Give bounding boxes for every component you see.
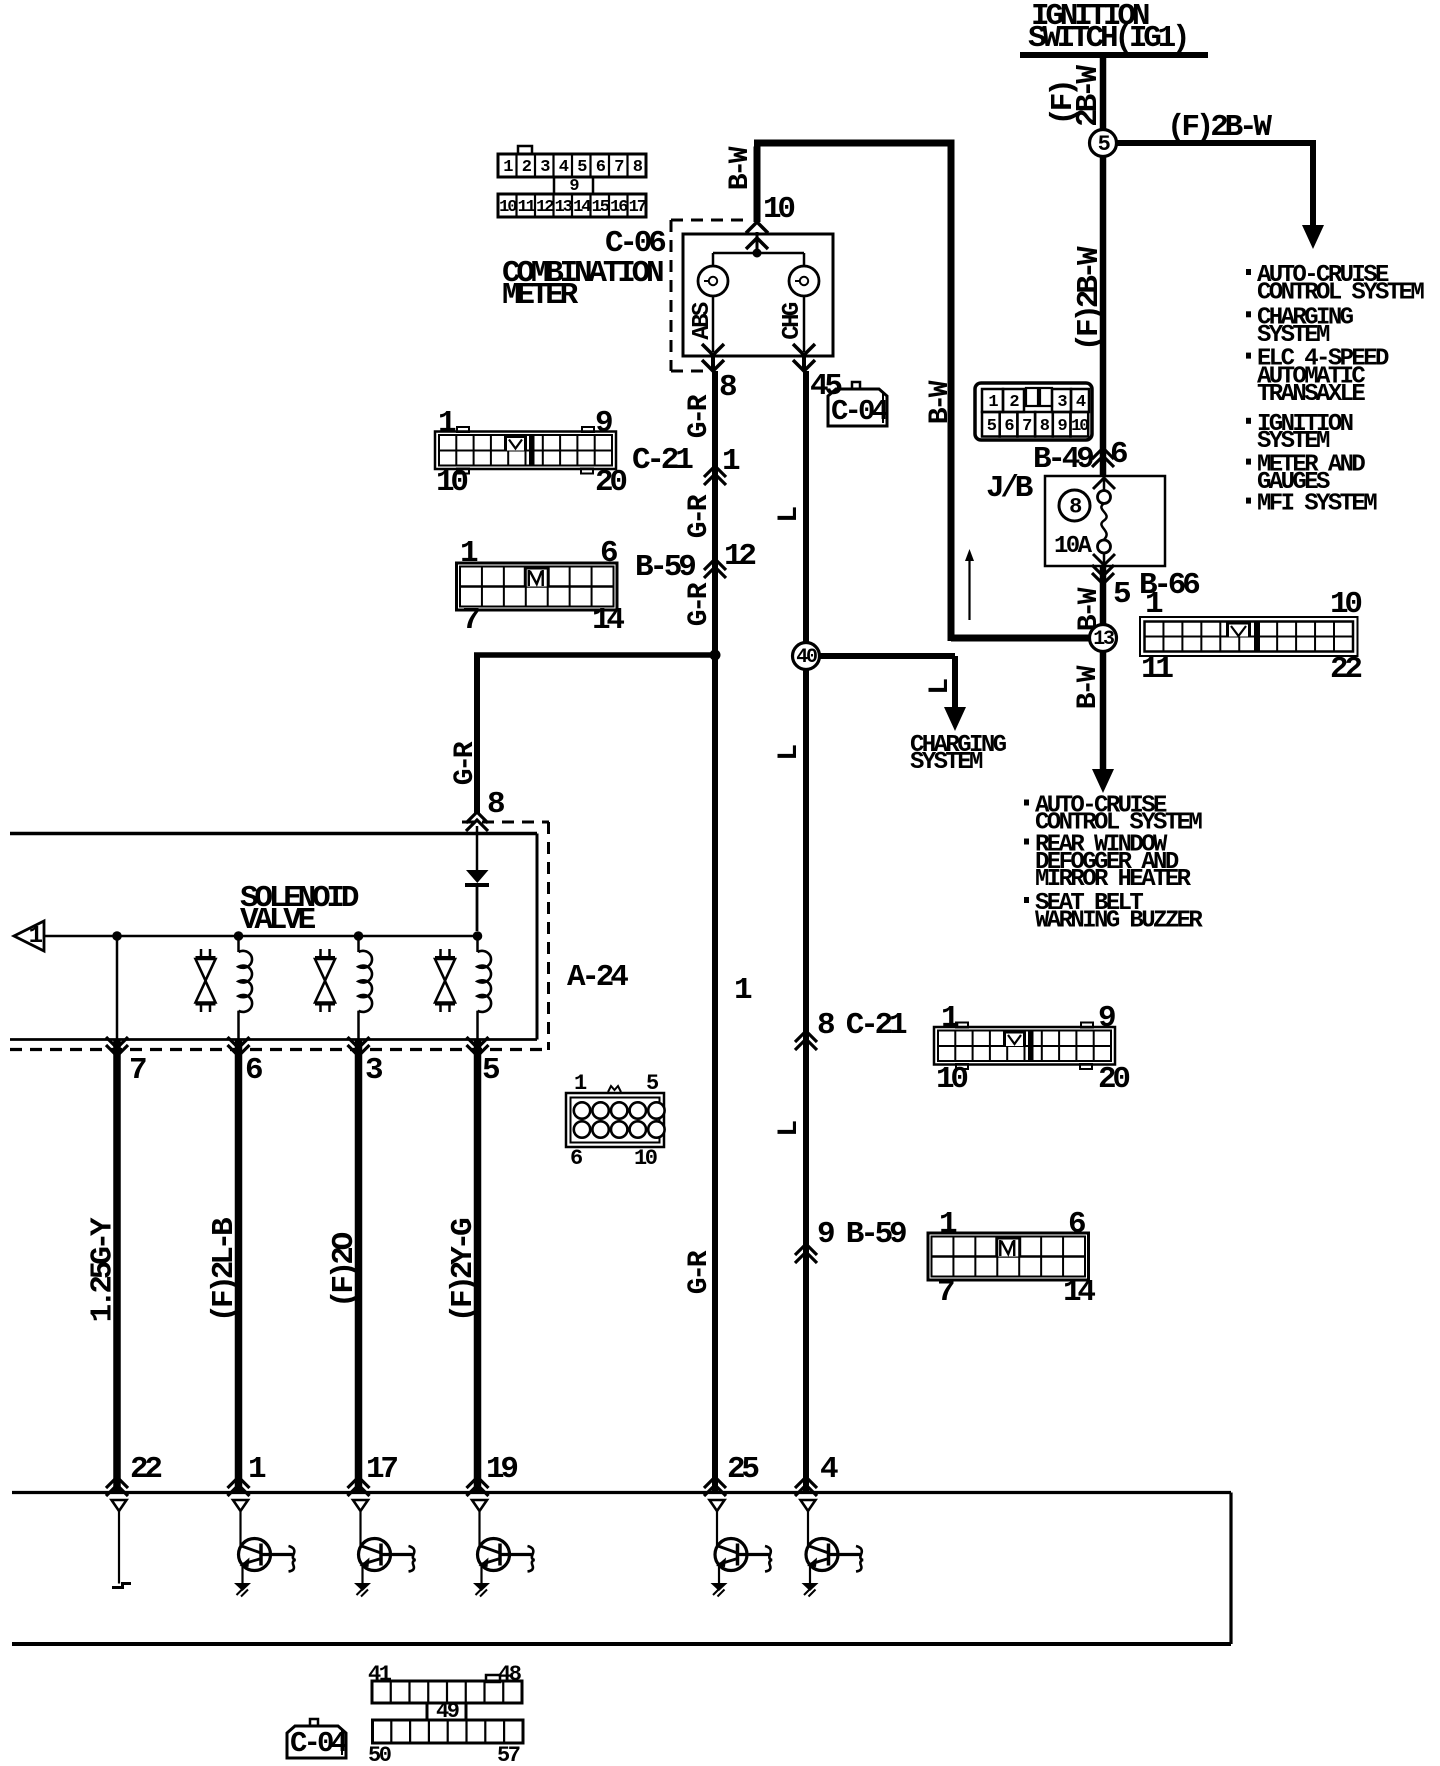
svg-text:10: 10 [499,198,517,217]
svg-text:VALVE: VALVE [240,903,316,938]
wire G-R from meter pin 8 [712,371,718,1491]
wire B-W to node 13 [951,635,1090,642]
svg-text:B-W: B-W [1073,665,1104,709]
svg-text:13: 13 [555,198,573,217]
svg-text:G-R: G-R [684,1250,715,1294]
indicator lamp ABS [698,266,728,296]
lamp label ABS (rotated) [689,302,716,340]
connector crossing B-66 chevrons [1092,565,1114,584]
svg-text:12: 12 [724,539,755,574]
wire label L branch (rotated) [925,679,956,695]
svg-text:WARNING BUZZER: WARNING BUZZER [1035,907,1203,934]
svg-text:57: 57 [497,1743,520,1766]
chevron CHG at dashed edge [793,356,815,371]
wire node5 down to J/B [1100,157,1107,477]
wire (F)2L-B [235,1040,243,1491]
ground-side bus wire [44,935,477,938]
connector C-06 [498,146,647,217]
svg-text:(F)2O: (F)2O [327,1232,362,1308]
solenoid valve label [240,881,359,938]
svg-text:9 B-59: 9 B-59 [817,1217,906,1252]
solenoid valve symbol 2 [315,949,335,1012]
svg-text:B-59: B-59 [635,550,695,585]
wire CHG lamp down [803,296,806,352]
meter internal wiring [713,253,804,266]
wire label L 3 (rotated) [774,1121,805,1137]
svg-text:B-49: B-49 [1033,442,1093,477]
svg-text:SYSTEM: SYSTEM [910,749,983,776]
wire branch down right [1310,146,1316,226]
wire node40 to charging branch [819,653,955,659]
junction dot solenoid 1 [234,931,244,941]
wire label 1.25G-Y (rotated) [86,1217,121,1322]
meter internal junction [753,249,762,258]
svg-text:10: 10 [763,192,794,227]
svg-text:41: 41 [368,1662,392,1687]
svg-text:G-R: G-R [684,494,715,538]
chevron into J/B [1093,478,1115,489]
wire label (F)2L-B (rotated) [207,1218,242,1322]
svg-text:J/B: J/B [986,471,1033,506]
wire label (F)2Y-G (rotated) [446,1218,481,1322]
connector B-59 label [635,550,695,585]
wire label G-R 2 (rotated) [684,494,715,538]
svg-text:(F)2L-B: (F)2L-B [207,1218,242,1322]
pin 8 / C-21 label [817,1008,907,1043]
wire pin7 in box [116,936,119,1039]
wire label B-W at meter (rotated) [725,146,756,190]
A-24 dashed outline [10,822,549,1050]
connector crossing B-59 chevrons [704,559,726,578]
pin 45 label [810,369,841,404]
solenoid valve symbol 1 [196,949,216,1012]
node 13 [1090,625,1117,652]
wire label (F)2B-W [1167,110,1272,145]
chevron CHG at box edge [793,344,815,355]
arrow to lower systems list [1092,769,1114,793]
ECU box [12,1493,1231,1645]
connector crossing A-24 chevrons [466,812,488,831]
ECU output transistor Q2 (pin 17) [353,1500,416,1597]
svg-text:11: 11 [518,198,536,217]
svg-text:SWITCH(IG1): SWITCH(IG1) [1028,21,1186,56]
arrow to systems list [1302,225,1324,249]
pin 5 label [1113,577,1130,612]
wire from ignition switch [1100,58,1107,130]
connector crossing C-21 chevrons (L wire) [795,1031,817,1050]
svg-text:20: 20 [1098,1062,1129,1097]
svg-text:13: 13 [1093,628,1114,651]
svg-text:49: 49 [436,1699,459,1724]
svg-text:A-24: A-24 [567,960,628,995]
junction dot pin7 wire [112,931,122,941]
connector crossing ECU chevron pin 19 [467,1477,489,1496]
connector crossing A-24 chevron pin 3 [348,1037,370,1056]
connector (ECU 41-57) [368,1662,523,1766]
svg-text:16: 16 [610,198,628,217]
connector crossing B-49 chevrons [1092,448,1114,467]
solenoid valve symbol 3 [435,949,455,1012]
svg-text:B-W: B-W [925,380,956,424]
pin 9 / B-59 label [817,1217,906,1252]
pin 17 label (ECU) [366,1452,397,1487]
wire 1.25G-Y [113,1040,121,1491]
pin 6 label (A-24) [245,1053,262,1088]
svg-text:1.25G-Y: 1.25G-Y [86,1217,121,1322]
ignition switch label [1028,0,1186,56]
svg-text:48: 48 [498,1662,522,1687]
svg-text:10A: 10A [1054,533,1093,560]
wire B-W into meter [754,147,761,223]
svg-text:C-04: C-04 [290,1727,348,1760]
wire L from meter pin 45 [803,371,809,1491]
pin 5 label (A-24) [482,1053,499,1088]
wire (F)2O [355,1040,363,1491]
connector crossing A-24 chevron pin 7 [106,1037,128,1056]
svg-text:G-R: G-R [684,394,715,438]
pin 12 label [724,539,755,574]
ECU output transistor Q3 (pin 19) [472,1500,535,1597]
svg-text:CONTROL SYSTEM: CONTROL SYSTEM [1257,280,1424,307]
connector B-66 [1140,587,1361,687]
wire node13 down [1100,652,1107,773]
chevron out of J/B [1093,553,1115,566]
solenoid coil 2 [359,936,373,1039]
wire label G-R 3 (rotated) [684,582,715,626]
pin 8 label (meter) [719,370,736,405]
node 40 [793,643,820,670]
A-24 connector label [567,960,628,995]
wire charging branch down [952,656,958,708]
chevron ABS at box edge [702,344,724,355]
ECU output transistor Q1 (pin 1) [233,1500,296,1597]
connector C-06 label [605,226,665,261]
chevron at meter dashed edge [746,222,768,253]
svg-text:10: 10 [1071,417,1089,436]
combination meter box [683,234,833,356]
diode [465,826,489,931]
wire branch to solenoid valve [474,652,718,658]
connector C-21 (lower) [934,1001,1129,1097]
svg-text:14: 14 [573,198,591,217]
node 5 [1090,130,1117,158]
svg-text:17: 17 [629,198,647,217]
connector B-49 label [1033,437,1127,477]
pin 3 label (A-24) [365,1053,383,1088]
svg-text:C-04: C-04 [831,395,889,428]
fuse rating label 10A [1054,533,1093,560]
wire label (F)2O (rotated) [327,1232,362,1308]
junction block label J/B [986,471,1033,506]
wire label B-W above node13 (rotated) [1074,587,1105,631]
connector B-59 (upper) [457,536,625,638]
connector C-04 (lower) [287,1719,348,1760]
wire label G-R 1 (rotated) [684,394,715,438]
connector C-21 label [632,443,740,479]
connector crossing ECU chevron pin 22 [106,1477,128,1496]
wire label G-R branch (rotated) [450,741,481,785]
wire node5 to right branch [1116,140,1316,146]
svg-text:19: 19 [486,1452,517,1487]
connector crossing ECU chevron pin 4 [795,1477,817,1496]
svg-text:14: 14 [592,603,624,638]
connector crossing ECU chevron pin 1 [228,1477,250,1496]
lamp label CHG (rotated) [779,302,806,340]
pin 4 label (ECU) [820,1452,838,1487]
svg-text:TRANSAXLE: TRANSAXLE [1257,381,1365,408]
svg-text:22: 22 [1330,652,1361,687]
wire J/B to node 13 [1100,566,1107,625]
pin 8 label (solenoid) [487,787,504,822]
svg-text:(F)2B-W: (F)2B-W [1072,246,1107,351]
svg-text:MFI SYSTEM: MFI SYSTEM [1257,491,1377,518]
connector crossing ECU chevron pin 25 [704,1477,726,1496]
connector B-49 [975,383,1092,440]
ECU internal pin 22 termination [112,1500,132,1588]
pin 1 label (ECU wire) [734,973,752,1008]
wire label <F>2B-W (rotated) [1072,246,1107,351]
svg-text:17: 17 [366,1452,397,1487]
svg-text:C-21: C-21 [632,443,693,478]
ignition switch bar [1020,52,1208,58]
junction on G-R wire [710,650,721,661]
chevron at meter box edge [746,238,768,249]
svg-text:G-R: G-R [684,582,715,626]
svg-text:10: 10 [936,1062,967,1097]
direction arrow near J/B [965,549,974,620]
solenoid coil 3 [478,936,492,1039]
svg-text:14: 14 [1063,1275,1095,1310]
charging system label [910,732,1007,776]
indicator lamp CHG [789,266,819,296]
lower systems list [1024,793,1203,935]
svg-text:CHG: CHG [779,302,806,340]
svg-text:B-W: B-W [725,146,756,190]
svg-text:G-R: G-R [450,741,481,785]
wire label <F> 2B-W (rotated, two lines) [1046,65,1106,127]
triangle terminal 1 [14,921,44,951]
wire B-W horizontal top [754,140,954,147]
arrow to charging system [944,707,966,731]
fuse 8 circle [1059,490,1090,521]
svg-text:50: 50 [368,1743,391,1766]
connector B-59 (lower) [928,1207,1095,1310]
connector crossing A-24 chevron pin 5 [467,1037,489,1056]
connector C-04 (upper) [828,382,889,428]
svg-text:10: 10 [634,1146,657,1171]
connector crossing A-24 chevron pin 6 [228,1037,250,1056]
wire label L 1 (rotated) [774,507,805,523]
svg-text:15: 15 [592,198,610,217]
svg-text:METER: METER [502,278,579,313]
svg-text:11: 11 [1141,652,1173,687]
connector crossing ECU chevron pin 17 [348,1477,370,1496]
combination meter label [502,256,663,313]
svg-text:12: 12 [536,198,554,217]
wire label G-R 4 (rotated) [684,1250,715,1294]
wire down to solenoid pin 8 [474,655,480,814]
solenoid coil 1 [239,936,253,1039]
ECU output transistor Q5 (pin 4) [801,1500,864,1597]
svg-text:40: 40 [796,646,817,669]
connector crossing C-21 chevrons [704,466,726,485]
pin 7 label (A-24) [129,1053,146,1088]
connector B-66 label [1139,568,1199,603]
svg-text:MIRROR HEATER: MIRROR HEATER [1035,866,1192,893]
svg-text:22: 22 [130,1452,161,1487]
pin 22 label (ECU) [130,1452,161,1487]
ECU output transistor Q4 (pin 25) [710,1500,773,1597]
wire label L 2 (rotated) [774,745,805,761]
svg-text:(F)2B-W: (F)2B-W [1167,110,1272,145]
svg-text:2B-W: 2B-W [1071,65,1106,127]
wire label B-W (rotated) [925,380,956,424]
fuse element bottom terminal [1098,540,1111,553]
chevron ABS at dashed edge [702,356,724,371]
svg-text:10: 10 [1330,587,1361,622]
connector C-21 (upper) [435,406,626,500]
svg-text:6: 6 [570,1146,582,1171]
fuse element top terminal [1098,491,1111,504]
wire ABS lamp down [712,296,715,352]
pin 1 label (ECU) [248,1452,266,1487]
pin 25 label (ECU) [727,1452,758,1487]
combination meter dashed outline [671,220,749,371]
wire B-W vertical [948,140,955,642]
svg-text:(F)2Y-G: (F)2Y-G [446,1218,481,1322]
svg-text:8 C-21: 8 C-21 [817,1008,907,1043]
junction block J/B box [1045,476,1165,566]
pin 19 label (ECU) [486,1452,517,1487]
junction dot solenoid 2 [354,931,364,941]
solenoid valve box [10,834,537,1040]
pin 10 label [763,192,794,227]
junction dot solenoid 3 [473,931,483,941]
systems list (auto-cruise etc) [1246,262,1424,518]
svg-text:20: 20 [595,465,626,500]
svg-text:10: 10 [436,465,467,500]
wire (F)2Y-G [474,1040,482,1491]
wire label B-W below node13 (rotated) [1073,665,1104,709]
connector A-24 [566,1071,665,1171]
connector crossing B-59 chevrons (L wire) [795,1244,817,1263]
svg-text:25: 25 [727,1452,758,1487]
fuse element wire [1101,476,1106,540]
